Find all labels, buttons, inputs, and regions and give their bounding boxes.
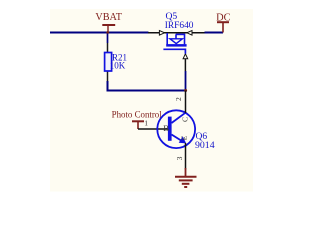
wire rail to R21 [107,34,109,44]
wire VBAT rail left segment [50,32,149,34]
mosfet Q5 [148,31,205,72]
svg-text:9014: 9014 [195,140,215,151]
pin S left [148,31,205,36]
pin 2 collector wire [185,91,187,114]
pin 3 emitter wire [185,143,187,170]
svg-text:10K: 10K [110,61,126,71]
pin D right [187,31,192,36]
wire R21 to gate node [108,81,186,91]
svg-text:1: 1 [144,118,148,127]
channel bar [166,44,186,47]
svg-text:IRF640: IRF640 [165,21,194,31]
pin 1 base wire [138,128,168,130]
svg-text:3: 3 [175,156,184,160]
gate line [163,49,185,54]
power port VBAT [95,12,122,33]
svg-text:Photo Control: Photo Control [112,110,163,120]
svg-text:C: C [180,117,189,122]
ground [175,168,197,187]
resistor R21 [105,43,112,81]
wire gate node vertical [185,71,187,91]
junction VBAT rail node [106,31,109,34]
body outline with body diode [167,33,185,45]
power port Photo Control [112,110,163,129]
wire drain to DC [205,32,224,34]
junction gate node [184,89,187,92]
transistor Q6 [157,91,195,170]
svg-text:2: 2 [174,97,183,101]
pin G bottom [183,54,188,71]
power port DC [216,13,231,33]
svg-text:E: E [180,135,189,140]
svg-text:VBAT: VBAT [95,12,122,23]
svg-text:B: B [163,123,169,133]
